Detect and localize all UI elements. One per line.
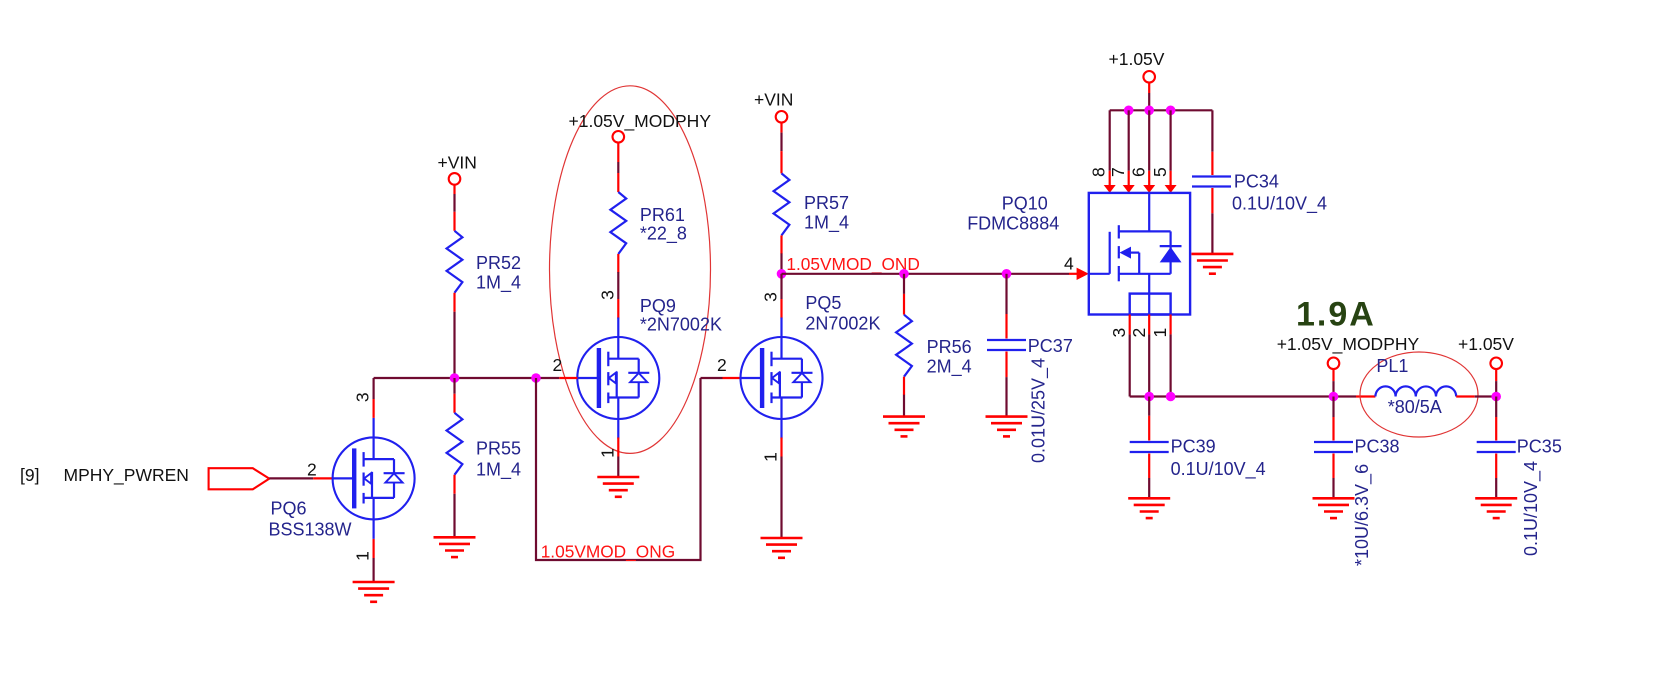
- transistor PQ6: [333, 418, 415, 539]
- label PR57 1M_4: [804, 193, 849, 234]
- svg-text:FDMC8884: FDMC8884: [967, 213, 1059, 233]
- svg-text:+1.05V: +1.05V: [1109, 49, 1165, 69]
- resistor PR61: [610, 192, 626, 254]
- wire MPHY_PWREN to PQ6 gate: [269, 477, 332, 479]
- wire drop pin6: [1148, 110, 1150, 186]
- svg-text:7: 7: [1108, 167, 1128, 177]
- svg-text:PL1: PL1: [1376, 356, 1408, 376]
- junction dot PQ5 drain: [777, 269, 787, 279]
- svg-text:2N7002K: 2N7002K: [805, 314, 880, 334]
- svg-text:0.1U/10V_4: 0.1U/10V_4: [1232, 194, 1327, 215]
- wire OND node to PQ5 drain: [780, 274, 782, 319]
- svg-text:PQ5: PQ5: [805, 293, 841, 313]
- svg-text:PR56: PR56: [927, 337, 972, 357]
- junction dot pin5: [1166, 106, 1176, 116]
- wire drop PC34: [1211, 110, 1213, 175]
- power +VIN (middle): [754, 89, 793, 122]
- ground at PR55: [434, 537, 476, 557]
- wire PL1 to +1.05V node: [1456, 395, 1496, 397]
- resistor PR57: [774, 173, 790, 235]
- svg-text:*22_8: *22_8: [640, 224, 687, 245]
- svg-text:PQ9: PQ9: [640, 296, 676, 316]
- wire PQ9 source to ground: [617, 438, 619, 478]
- svg-text:PC37: PC37: [1028, 336, 1073, 356]
- wire +1.05V to output node: [1495, 369, 1497, 396]
- highlight ellipse around PQ9: [550, 86, 711, 454]
- svg-text:0.1U/10V_4: 0.1U/10V_4: [1171, 459, 1266, 480]
- wire output net horizontal: [1130, 395, 1376, 397]
- label PR61 *22_8: [640, 205, 687, 245]
- ground at PQ9: [597, 477, 639, 497]
- wire OND to PC37: [1005, 274, 1007, 339]
- junction dot ONG tee: [531, 373, 541, 383]
- label PQ9 *2N7002K: [640, 296, 722, 334]
- wire PR61 to PQ9 drain: [617, 254, 619, 319]
- svg-text:BSS138W: BSS138W: [269, 519, 352, 539]
- svg-text:2: 2: [553, 355, 563, 375]
- label PQ6 BSS138W: [269, 499, 352, 540]
- capacitor PC38: [1314, 442, 1353, 452]
- svg-text:0.01U/25V_4: 0.01U/25V_4: [1029, 358, 1050, 463]
- transistor PQ10 body: [1089, 193, 1190, 315]
- transistor PQ9: [577, 318, 659, 439]
- svg-text:1M_4: 1M_4: [476, 273, 521, 294]
- power +1.05V (top): [1109, 49, 1165, 83]
- wire PC38 drop: [1332, 397, 1334, 441]
- ground at PQ5: [761, 538, 803, 558]
- svg-text:+1.05V: +1.05V: [1458, 334, 1514, 354]
- svg-text:5: 5: [1150, 167, 1170, 177]
- svg-text:3: 3: [353, 392, 373, 402]
- power +1.05V_MODPHY (top): [569, 111, 712, 143]
- wire drop pin8: [1109, 110, 1111, 186]
- svg-text:+VIN: +VIN: [438, 152, 477, 172]
- wire gate bus to PQ9 gate: [536, 377, 577, 379]
- junction dot PC35: [1491, 392, 1501, 402]
- svg-text:PQ6: PQ6: [271, 499, 307, 519]
- junction dot PC38: [1329, 392, 1339, 402]
- junction dot pin1 output: [1166, 392, 1176, 402]
- ground at PC37: [986, 417, 1028, 437]
- svg-text:1.05VMOD_OND: 1.05VMOD_OND: [786, 254, 920, 274]
- ground at PC38: [1313, 498, 1355, 518]
- resistor PR56: [896, 315, 912, 377]
- svg-text:3: 3: [1109, 328, 1129, 338]
- svg-text:[9]: [9]: [20, 465, 39, 485]
- power +1.05V (output): [1458, 334, 1514, 369]
- svg-text:+VIN: +VIN: [754, 89, 793, 109]
- ground at PR56: [883, 417, 925, 437]
- label PQ10 FDMC8884: [967, 194, 1059, 234]
- svg-text:1: 1: [1150, 328, 1170, 338]
- svg-text:2M_4: 2M_4: [927, 357, 972, 378]
- wire top bus: [1110, 109, 1213, 111]
- svg-text:PC34: PC34: [1234, 171, 1279, 191]
- wire PC35 drop: [1495, 397, 1497, 441]
- capacitor PC37: [987, 340, 1026, 350]
- pin 7 arrow: [1123, 185, 1135, 193]
- svg-text:1: 1: [353, 551, 373, 561]
- svg-text:PQ10: PQ10: [1002, 194, 1048, 214]
- svg-text:4: 4: [1064, 254, 1074, 274]
- junction dot PR52/PR55: [450, 373, 460, 383]
- wire PC39 to ground: [1148, 454, 1150, 499]
- label PC34 0.1U/10V_4: [1232, 171, 1327, 214]
- sheet port [9] MPHY_PWREN: [20, 465, 269, 489]
- wire PQ10 pin2: [1148, 315, 1150, 397]
- wire PR56 to ground: [903, 377, 905, 417]
- wire net 1.05VMOD_ONG routing: [536, 378, 742, 560]
- svg-text:1: 1: [597, 448, 617, 458]
- svg-text:3: 3: [597, 290, 617, 300]
- svg-text:PR57: PR57: [804, 193, 849, 213]
- pin 5 arrow: [1165, 185, 1177, 193]
- svg-text:PR55: PR55: [476, 439, 521, 459]
- wire PC34 to ground: [1211, 188, 1213, 254]
- label PC39 0.1U/10V_4: [1171, 437, 1266, 481]
- wire PR52 to bus junction: [453, 293, 455, 378]
- wire +1.05V_MODPHY to PR61: [617, 143, 619, 192]
- ground at PC34: [1191, 254, 1233, 274]
- capacitor PC39: [1130, 442, 1169, 452]
- svg-text:1.9A: 1.9A: [1296, 296, 1376, 334]
- power +VIN (left): [438, 152, 477, 184]
- junction dot pin6: [1144, 106, 1154, 116]
- svg-text:PC39: PC39: [1171, 437, 1216, 457]
- svg-text:PC35: PC35: [1517, 437, 1562, 457]
- wire PQ10 pin1: [1169, 315, 1171, 397]
- wire +VIN to PR52: [453, 185, 455, 231]
- label PR56 2M_4: [927, 337, 972, 378]
- label PR52 1M_4: [476, 253, 521, 294]
- svg-text:2: 2: [1129, 328, 1149, 338]
- svg-text:2: 2: [307, 460, 317, 480]
- junction dot PR56: [899, 269, 909, 279]
- label PQ5 2N7002K: [805, 293, 880, 334]
- svg-text:8: 8: [1089, 167, 1109, 177]
- inductor PL1: [1375, 386, 1456, 396]
- svg-text:PC38: PC38: [1355, 437, 1400, 457]
- wire net 1.05VMOD_OND horizontal: [782, 273, 1080, 275]
- pin 6 arrow: [1143, 185, 1155, 193]
- capacitor PC34: [1192, 177, 1231, 187]
- svg-text:+1.05V_MODPHY: +1.05V_MODPHY: [1277, 334, 1420, 355]
- wire PC37 to ground: [1005, 352, 1007, 417]
- junction dot pin2 output: [1144, 392, 1154, 402]
- svg-text:PR61: PR61: [640, 205, 685, 225]
- svg-text:*10U/6.3V_6: *10U/6.3V_6: [1352, 464, 1373, 566]
- svg-text:*80/5A: *80/5A: [1388, 397, 1442, 417]
- wire +1.05V_MODPHY to output net: [1332, 369, 1334, 396]
- ground at PC35: [1475, 498, 1517, 518]
- svg-text:0.1U/10V_4: 0.1U/10V_4: [1521, 461, 1542, 556]
- wire PQ5 source to ground: [780, 438, 782, 539]
- ground at PQ6: [353, 582, 395, 602]
- pin 4 arrow into PQ10: [1077, 268, 1089, 280]
- junction dot PC37: [1002, 269, 1012, 279]
- wire +VIN to PR57: [780, 123, 782, 174]
- svg-text:6: 6: [1129, 167, 1149, 177]
- resistor PR55: [447, 413, 463, 475]
- svg-text:PR52: PR52: [476, 253, 521, 273]
- wire PC38 to ground: [1332, 454, 1334, 499]
- svg-text:MPHY_PWREN: MPHY_PWREN: [64, 465, 189, 486]
- wire drop pin7: [1128, 110, 1130, 186]
- svg-text:1M_4: 1M_4: [476, 460, 521, 481]
- svg-text:1.05VMOD_ONG: 1.05VMOD_ONG: [541, 542, 675, 562]
- resistor PR52: [447, 231, 463, 293]
- svg-text:1M_4: 1M_4: [804, 213, 849, 234]
- wire OND to PR56: [903, 274, 905, 315]
- wire PC35 to ground: [1495, 454, 1497, 499]
- wire bus to PR55: [453, 378, 455, 413]
- label PR55 1M_4: [476, 439, 521, 481]
- highlight ellipse around PL1: [1360, 352, 1478, 437]
- wire drop pin5: [1169, 110, 1171, 186]
- wire PQ10 pin3: [1129, 315, 1131, 397]
- wire PR55 to ground: [453, 475, 455, 538]
- wire +1.05V to top bus: [1148, 83, 1150, 111]
- svg-text:3: 3: [761, 292, 781, 302]
- junction dot pin7: [1124, 106, 1134, 116]
- wire PR57 to OND node: [780, 235, 782, 273]
- transistor PQ5: [741, 318, 823, 439]
- wire PQ6 drain to gate bus: [374, 378, 536, 418]
- svg-text:+1.05V_MODPHY: +1.05V_MODPHY: [569, 111, 712, 132]
- pin 8 arrow: [1104, 185, 1116, 193]
- svg-text:1: 1: [761, 452, 781, 462]
- svg-text:*2N7002K: *2N7002K: [640, 314, 722, 334]
- wire PQ6 source to ground: [373, 539, 375, 582]
- svg-text:2: 2: [717, 355, 727, 375]
- capacitor PC35: [1477, 442, 1516, 452]
- wire PC39 drop: [1148, 397, 1150, 441]
- power +1.05V_MODPHY (output): [1277, 334, 1420, 369]
- ground at PC39: [1128, 498, 1170, 518]
